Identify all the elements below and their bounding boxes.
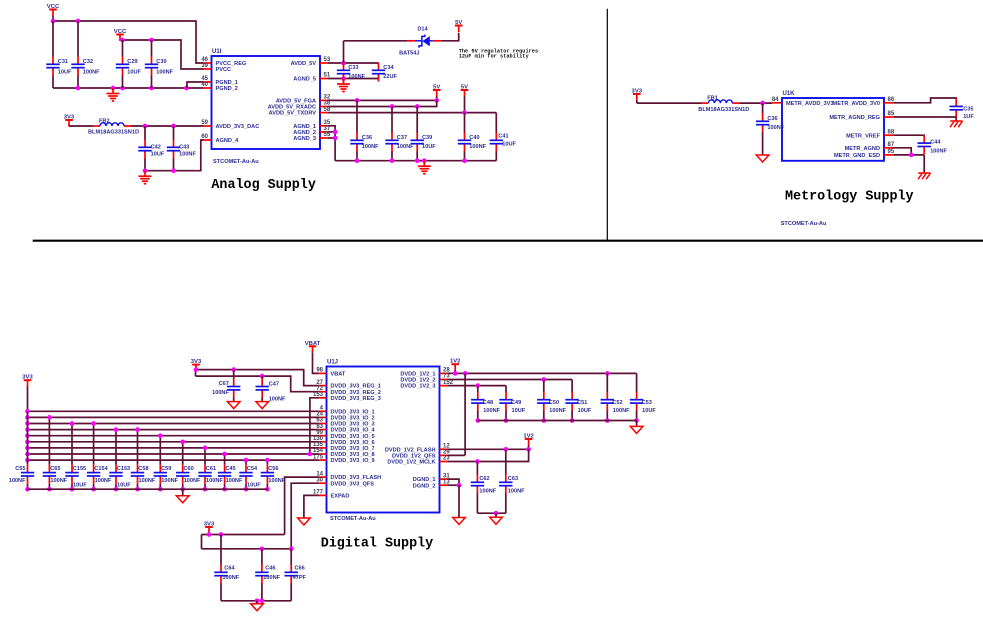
wire — [478, 420, 637, 422]
ground (chassis) — [918, 173, 931, 179]
wire — [344, 40, 408, 42]
capacitor C35 1UF — [950, 99, 975, 120]
ferrite bead FB2 BLM18AG331SN1D — [88, 119, 139, 136]
wire — [285, 477, 319, 534]
svg-text:DVDD_1V2_1: DVDD_1V2_1 — [400, 372, 435, 378]
junction — [114, 427, 119, 432]
svg-text:C153: C153 — [117, 466, 130, 472]
wire — [77, 21, 79, 57]
junction — [504, 418, 509, 423]
wire — [261, 549, 263, 565]
wire — [159, 484, 161, 489]
svg-text:C66: C66 — [295, 565, 305, 571]
svg-text:DVDD_1V2_QFS: DVDD_1V2_QFS — [392, 454, 436, 460]
capacitor C46 100NF — [255, 565, 280, 584]
wire — [266, 484, 268, 489]
capacitor C34 22UF — [372, 63, 398, 82]
pin 24 DVDD_3V3_IO_2 of U1J — [316, 412, 374, 422]
wire — [115, 484, 117, 489]
svg-text:C62: C62 — [479, 476, 489, 482]
pin 95 METR_GND_ESD of U1K — [834, 149, 895, 159]
svg-text:100NF: 100NF — [206, 478, 223, 484]
wire — [290, 583, 292, 601]
wire — [894, 116, 956, 118]
wire — [310, 398, 319, 454]
svg-text:95: 95 — [888, 149, 895, 155]
pin 30 DVDD_3V3_QFS of U1J — [316, 477, 374, 487]
svg-text:C31: C31 — [58, 59, 68, 65]
svg-text:C154: C154 — [94, 466, 108, 472]
wire — [441, 33, 458, 41]
pin 39 PVCC of U1I — [201, 63, 231, 73]
capacitor C64 100NF — [214, 565, 239, 584]
svg-text:100NF: 100NF — [268, 478, 285, 484]
wire — [304, 495, 319, 518]
svg-text:FB2: FB2 — [99, 119, 110, 125]
capacitor C52 100NF — [601, 392, 631, 414]
junction — [475, 383, 480, 388]
wire — [458, 485, 460, 517]
svg-text:C36: C36 — [767, 116, 777, 122]
junction — [541, 418, 546, 423]
wire — [448, 449, 529, 461]
power 3V3 — [64, 115, 75, 127]
junction — [158, 487, 163, 492]
svg-text:C43: C43 — [179, 144, 189, 150]
svg-text:100NF: 100NF — [226, 478, 243, 484]
pin 84 METR_AVDD_3V3 of U1K — [772, 97, 834, 107]
svg-text:DVDD_1V2_3: DVDD_1V2_3 — [400, 384, 435, 390]
pin 85 METR_AGND_REG of U1K — [829, 111, 895, 121]
capacitor C49 10UF — [499, 392, 525, 414]
svg-text:C53: C53 — [642, 400, 652, 406]
junction — [70, 421, 75, 426]
wire — [93, 424, 95, 465]
pin 60 AGND_4 of U1I — [201, 134, 239, 144]
junction — [222, 452, 227, 457]
power 3V3 — [204, 522, 215, 535]
wire — [52, 21, 54, 57]
pin 83 DVDD_3V3_IO_4 of U1J — [316, 424, 375, 434]
pin 58 AVDD_5V_TXDRV of U1I — [269, 107, 331, 117]
svg-text:10UF: 10UF — [73, 483, 87, 489]
junction — [260, 374, 265, 379]
pin 98 VBAT of U1J — [316, 368, 346, 378]
capacitor C53 10UF — [630, 392, 656, 414]
svg-text:DVDD_3V3_IO_8: DVDD_3V3_IO_8 — [331, 452, 375, 458]
wire — [477, 411, 479, 421]
svg-text:DVDD_3V3_QFS: DVDD_3V3_QFS — [331, 481, 375, 487]
wire — [131, 125, 204, 127]
wire — [27, 411, 29, 465]
junction — [180, 487, 185, 492]
wire — [448, 484, 460, 486]
pin 72 DVDD_3V3_REG_2 of U1J — [316, 386, 381, 396]
junction — [135, 487, 140, 492]
wire — [204, 484, 206, 489]
junction — [760, 101, 765, 106]
svg-text:100NF: 100NF — [508, 489, 525, 495]
capacitor C51 10UF — [565, 392, 591, 414]
junction — [341, 76, 346, 81]
pin 73 DVDD_1V2_2 of U1J — [400, 374, 450, 384]
wire — [224, 484, 226, 489]
svg-text:86: 86 — [888, 97, 895, 103]
pin 32 AVDD_5V_FGA of U1I — [276, 95, 331, 105]
svg-text:10UF: 10UF — [502, 142, 516, 148]
wire — [290, 549, 292, 565]
svg-text:DGND_1: DGND_1 — [413, 477, 436, 483]
wire — [202, 534, 285, 536]
svg-text:METR_VREF: METR_VREF — [846, 133, 880, 139]
svg-text:10UF: 10UF — [512, 408, 526, 414]
svg-text:METR_AGND: METR_AGND — [845, 146, 880, 152]
svg-text:DVDD_1V2_MCLK: DVDD_1V2_MCLK — [387, 460, 435, 466]
wire — [144, 159, 146, 171]
pin 59 AVDD_3V3_DAC of U1I — [201, 120, 259, 130]
svg-text:100NF: 100NF — [613, 408, 630, 414]
svg-text:DVDD_3V3_IO_2: DVDD_3V3_IO_2 — [331, 416, 375, 422]
wire — [122, 40, 124, 57]
svg-text:DVDD_1V2_FLASH: DVDD_1V2_FLASH — [385, 447, 436, 453]
wire — [448, 379, 573, 381]
svg-text:10UF: 10UF — [127, 69, 141, 75]
junction — [111, 86, 116, 91]
svg-text:C60: C60 — [184, 466, 194, 472]
power VBAT — [305, 341, 321, 353]
wire — [328, 131, 335, 133]
ground — [490, 517, 503, 524]
junction — [143, 168, 148, 173]
svg-text:DVDD_3V3_IO_9: DVDD_3V3_IO_9 — [331, 458, 375, 464]
pin 153 DVDD_3V3_REG_3 of U1J — [313, 392, 381, 402]
wire — [464, 373, 466, 455]
svg-text:DVDD_3V3_IO_7: DVDD_3V3_IO_7 — [331, 446, 375, 452]
svg-text:87: 87 — [888, 142, 895, 148]
wire — [201, 535, 203, 549]
junction — [244, 458, 249, 463]
wire — [762, 103, 764, 114]
wire — [224, 454, 226, 465]
junction — [390, 104, 395, 109]
capacitor C50 100NF — [537, 392, 567, 414]
junction — [25, 487, 30, 492]
wire — [261, 398, 263, 402]
wire — [464, 113, 466, 133]
wire — [261, 583, 263, 601]
junction — [149, 86, 154, 91]
wire — [606, 411, 608, 421]
wire — [894, 98, 956, 103]
capacitor C44 100NF — [918, 135, 948, 154]
svg-text:METR_AVDD_3V0: METR_AVDD_3V0 — [833, 101, 880, 107]
junction — [25, 433, 30, 438]
svg-text:100NF: 100NF — [50, 478, 67, 484]
capacitor C59 100NF — [154, 465, 179, 484]
pin 175 DVDD_3V3_IO_9 of U1J — [313, 454, 375, 464]
svg-text:C39: C39 — [422, 135, 432, 141]
capacitor C55 100NF — [9, 465, 34, 484]
pin 154 DVDD_3V3_IO_8 of U1J — [313, 448, 375, 458]
wire — [28, 435, 319, 437]
svg-text:84: 84 — [772, 97, 779, 103]
wire — [328, 78, 379, 80]
svg-text:10UF: 10UF — [58, 69, 72, 75]
pin 35 AGND_1 of U1I — [293, 120, 331, 130]
wire — [343, 41, 345, 63]
junction — [260, 546, 265, 551]
ground — [630, 426, 643, 433]
svg-text:100NF: 100NF — [184, 478, 201, 484]
junction — [51, 19, 56, 24]
wire — [476, 462, 478, 475]
capacitor C30 100NF — [145, 57, 174, 76]
svg-text:DVDD_1V2_2: DVDD_1V2_2 — [400, 378, 435, 384]
svg-text:10UF: 10UF — [642, 408, 656, 414]
junction — [355, 98, 360, 103]
IC U1I outline — [212, 56, 321, 149]
wire — [144, 126, 146, 140]
ground — [176, 496, 189, 503]
svg-text:100NF: 100NF — [362, 144, 379, 150]
svg-text:100NF: 100NF — [139, 478, 156, 484]
svg-text:STCOMET-Au-Au: STCOMET-Au-Au — [781, 221, 827, 227]
wire — [955, 117, 957, 121]
svg-text:10UF: 10UF — [578, 408, 592, 414]
svg-text:100NF: 100NF — [83, 69, 100, 75]
capacitor C61 100NF — [198, 465, 223, 484]
wire — [220, 535, 222, 565]
junction — [308, 452, 313, 457]
wire — [173, 159, 175, 171]
wire — [48, 484, 50, 489]
junction — [390, 158, 395, 163]
svg-text:U1J: U1J — [327, 360, 338, 366]
wire — [391, 151, 393, 160]
wire — [187, 82, 204, 88]
svg-text:PVCC: PVCC — [216, 67, 232, 73]
wire — [637, 102, 702, 104]
wire — [28, 423, 319, 425]
junction — [25, 446, 30, 451]
wire — [48, 417, 50, 464]
junction — [415, 104, 420, 109]
wire — [543, 380, 545, 393]
svg-text:D14: D14 — [417, 26, 428, 32]
svg-text:88: 88 — [888, 129, 895, 135]
capacitor C66 47PF — [285, 565, 307, 584]
junction — [25, 415, 30, 420]
wire — [328, 99, 437, 101]
svg-text:22UF: 22UF — [383, 74, 397, 80]
junction — [341, 61, 346, 66]
ground — [107, 88, 120, 101]
svg-text:AVDD_5V_TXDRV: AVDD_5V_TXDRV — [269, 111, 317, 117]
wire — [505, 411, 507, 421]
wire — [93, 484, 95, 489]
capacitor C153 10UF — [109, 465, 131, 489]
wire — [159, 436, 161, 465]
power 5V — [433, 85, 441, 101]
svg-text:C29: C29 — [127, 59, 137, 65]
pin 177 EXPAD of U1J — [313, 490, 349, 500]
pin 46 PVCC_REG of U1I — [201, 57, 246, 67]
capacitor C41 10UF — [490, 133, 517, 152]
pin 152 DVDD_1V2_3 of U1J — [400, 380, 453, 390]
wire — [182, 442, 184, 465]
wire — [53, 87, 204, 89]
section divider vertical line — [606, 9, 608, 241]
wire — [137, 484, 139, 489]
junction — [135, 427, 140, 432]
svg-text:100NF: 100NF — [397, 144, 414, 150]
svg-text:C33: C33 — [348, 65, 358, 71]
junction — [265, 458, 270, 463]
svg-text:C50: C50 — [549, 400, 559, 406]
capacitor C154 100NF — [87, 465, 112, 484]
junction — [158, 433, 163, 438]
wire — [356, 100, 358, 132]
svg-text:DVDD_3V3_REG_2: DVDD_3V3_REG_2 — [331, 390, 381, 396]
ground — [453, 518, 466, 525]
capacitor C45 100NF — [218, 465, 243, 484]
capacitor C48 100NF — [471, 392, 501, 414]
wire — [122, 76, 124, 89]
svg-text:10UF: 10UF — [247, 483, 261, 489]
svg-text:10UF: 10UF — [151, 152, 165, 158]
wire — [495, 513, 497, 517]
svg-text:C56: C56 — [268, 466, 278, 472]
wire — [894, 134, 924, 136]
wire — [291, 483, 318, 549]
wire — [204, 448, 206, 465]
IC U1K outline — [782, 98, 884, 161]
svg-text:100NF: 100NF — [348, 74, 365, 80]
ground — [227, 402, 240, 409]
pin 14 DVDD_3V3_FLASH of U1J — [316, 471, 381, 481]
svg-text:100NF: 100NF — [95, 478, 112, 484]
svg-text:100NF: 100NF — [930, 148, 947, 154]
junction — [265, 487, 270, 492]
pin 37 AGND_2 of U1I — [293, 126, 331, 136]
junction — [333, 130, 338, 135]
power VCC — [114, 29, 127, 41]
wire — [245, 484, 247, 489]
wire — [151, 40, 153, 57]
junction — [203, 487, 208, 492]
svg-text:DVDD_3V3_REG_3: DVDD_3V3_REG_3 — [331, 396, 381, 402]
junction — [76, 19, 81, 24]
wire — [505, 449, 507, 474]
junction — [25, 421, 30, 426]
svg-text:C64: C64 — [224, 565, 235, 571]
wire — [28, 447, 319, 449]
ground — [418, 161, 431, 174]
svg-text:DVDD_3V3_IO_5: DVDD_3V3_IO_5 — [331, 434, 375, 440]
junction — [289, 546, 294, 551]
svg-text:METR_AGND_REG: METR_AGND_REG — [829, 115, 880, 121]
wire — [196, 376, 319, 392]
wire — [356, 151, 358, 160]
svg-text:100NF: 100NF — [469, 144, 486, 150]
wire — [220, 583, 222, 601]
capacitor C39 10UF — [411, 133, 437, 152]
wire — [202, 548, 292, 550]
svg-text:1UF: 1UF — [963, 114, 974, 120]
wire — [416, 151, 418, 160]
wire — [28, 488, 268, 490]
wire — [464, 151, 466, 160]
svg-text:C55: C55 — [15, 466, 25, 472]
junction — [91, 421, 96, 426]
junction — [76, 86, 81, 91]
capacitor C155 10UF — [65, 465, 87, 489]
svg-text:C54: C54 — [247, 466, 258, 472]
svg-text:STCOMET-Au-Au: STCOMET-Au-Au — [330, 516, 376, 522]
svg-text:U1I: U1I — [212, 49, 222, 55]
svg-text:BAT54J: BAT54J — [399, 50, 419, 56]
pin 51 AGND_5 of U1I — [293, 73, 331, 83]
wire — [28, 459, 319, 461]
junction — [570, 418, 575, 423]
svg-text:C40: C40 — [469, 135, 479, 141]
svg-text:C44: C44 — [930, 139, 941, 145]
wire — [448, 454, 466, 456]
junction — [255, 598, 260, 603]
pin 53 AVDD_5V of U1I — [291, 57, 331, 67]
svg-text:10UF: 10UF — [117, 483, 131, 489]
svg-text:U1K: U1K — [783, 91, 796, 97]
diode D14 BAT54J — [399, 26, 441, 56]
junction — [355, 158, 360, 163]
svg-text:C47: C47 — [269, 381, 279, 387]
junction — [503, 447, 508, 452]
wire — [448, 385, 507, 387]
wire — [313, 353, 319, 374]
junction — [231, 367, 236, 372]
wire — [636, 421, 638, 427]
junction — [475, 459, 480, 464]
svg-text:100NF: 100NF — [263, 575, 280, 581]
junction — [541, 377, 546, 382]
junction — [149, 38, 154, 43]
junction — [462, 158, 467, 163]
svg-text:STCOMET-Au-Au: STCOMET-Au-Au — [213, 159, 259, 165]
wire — [543, 411, 545, 421]
wire — [221, 600, 291, 602]
svg-text:AGND_5: AGND_5 — [293, 77, 316, 83]
wire — [328, 100, 437, 106]
power 3V3 — [632, 89, 643, 104]
junction — [194, 367, 199, 372]
wire — [894, 154, 924, 156]
power 1V2 — [523, 434, 534, 450]
svg-text:Analog Supply: Analog Supply — [211, 178, 315, 193]
pin 13 DGND_2 of U1J — [413, 479, 451, 489]
junction — [605, 371, 610, 376]
junction — [494, 511, 499, 516]
wire — [391, 107, 393, 133]
capacitor C29 10UF — [116, 57, 142, 76]
wire — [182, 489, 184, 496]
wire — [173, 126, 175, 140]
svg-text:C36: C36 — [362, 135, 372, 141]
wire — [182, 484, 184, 489]
svg-text:C52: C52 — [612, 400, 622, 406]
pin 55 AGND_3 of U1I — [293, 132, 331, 142]
svg-text:85: 85 — [888, 111, 895, 117]
svg-text:100NF: 100NF — [483, 408, 500, 414]
